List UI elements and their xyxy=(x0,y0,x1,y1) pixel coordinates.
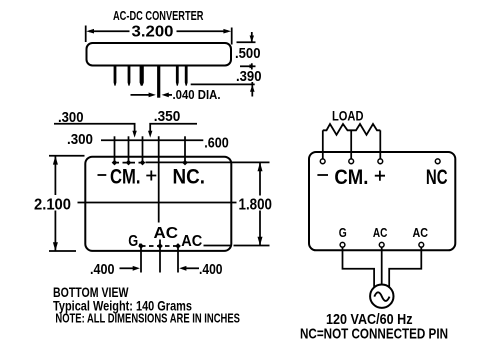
sine wave inside source xyxy=(374,292,389,301)
svg-text:NC.: NC. xyxy=(173,166,206,189)
dimension line 3.200 right segment with right arrow xyxy=(177,30,229,32)
svg-text:AC: AC xyxy=(413,226,429,240)
svg-text:.600: .600 xyxy=(204,135,229,152)
extension line at package bottom with small right arrow xyxy=(240,65,256,67)
pin stubs below package xyxy=(140,247,142,273)
wire right terminal xyxy=(379,130,381,159)
AC source circle xyxy=(370,285,393,308)
2.100 extension lines xyxy=(49,155,85,157)
.390 up arrow with shaft below xyxy=(251,82,253,97)
mid horizontal line xyxy=(78,202,237,204)
.040 DIA callout: right arrow xyxy=(167,94,172,96)
svg-text:1.800: 1.800 xyxy=(239,197,273,214)
pin circle AC right xyxy=(419,242,424,247)
pad dots top row xyxy=(112,160,118,166)
svg-text:3.200: 3.200 xyxy=(132,24,174,41)
svg-text:.300: .300 xyxy=(67,132,93,148)
svg-text:CM.: CM. xyxy=(334,166,368,189)
wire from middle AC straight down to source xyxy=(381,247,383,284)
dashed line between bottom pads xyxy=(141,245,178,247)
leader line for .300 with down arrow xyxy=(54,124,136,132)
label plus xyxy=(146,171,156,181)
2.100 dim line lower segment with down arrow xyxy=(54,211,56,251)
.500 dimension: top extension line xyxy=(237,41,256,43)
schematic package outline xyxy=(309,152,455,250)
svg-text:LOAD: LOAD xyxy=(332,108,364,124)
pin 4 (side view, middle AC pin, long - measured by .040 DIA) xyxy=(157,66,160,98)
svg-text:AC: AC xyxy=(373,226,388,240)
label plus xyxy=(375,171,385,181)
pin circle plus xyxy=(378,159,383,164)
pin 2 (side view) xyxy=(128,66,131,86)
.400 right arrow pointing left xyxy=(186,267,200,269)
svg-text:CM.: CM. xyxy=(110,166,141,189)
extension line left (package left edge) xyxy=(85,26,87,43)
.040 DIA callout: left arrow xyxy=(131,94,150,96)
extension line at pin tips xyxy=(191,83,255,85)
1.800 dim line lower segment with down arrow xyxy=(259,211,261,246)
pin 1 (side view) xyxy=(114,66,117,86)
2.100 dim line upper segment with up arrow xyxy=(54,156,56,195)
wire from G down right down to source xyxy=(343,247,375,287)
svg-text:.400: .400 xyxy=(199,261,223,278)
1.800 bottom extension line xyxy=(234,245,270,247)
svg-text:AC: AC xyxy=(154,225,179,242)
svg-text:NC=NOT CONNECTED PIN: NC=NOT CONNECTED PIN xyxy=(300,326,448,343)
pin circle NC xyxy=(435,159,440,164)
svg-text:G: G xyxy=(339,226,347,240)
pin 5 (side view) xyxy=(176,66,179,86)
wire from right AC down left down to source xyxy=(389,247,421,288)
svg-text:.350: .350 xyxy=(154,109,181,125)
svg-text:.040 DIA.: .040 DIA. xyxy=(173,87,221,102)
dimension line 3.200 left segment with left arrow xyxy=(89,30,130,32)
center line xyxy=(158,136,160,222)
1.800 dim line upper segment with up arrow xyxy=(259,163,261,196)
pin 6 (side view) xyxy=(185,66,188,86)
pin circle G xyxy=(340,242,345,247)
pin circle AC middle xyxy=(379,242,384,247)
pin spacing dimension line xyxy=(101,139,203,141)
svg-text:2.100: 2.100 xyxy=(34,197,71,214)
pad dots bottom row xyxy=(138,243,144,249)
resistor load zigzag (two resistors) xyxy=(323,124,381,135)
label minus xyxy=(317,174,328,176)
solid line from + pad to 1.800 dimension xyxy=(146,161,270,163)
leader line for .350 with down arrow xyxy=(149,124,197,132)
pin 3 (side view, merged pair, wide) xyxy=(140,66,144,86)
pin circle minus xyxy=(320,159,325,164)
pin stub ticks down to pads xyxy=(114,136,116,162)
pin circle CM xyxy=(349,159,354,164)
bottom view package outline xyxy=(85,157,231,251)
svg-text:.400: .400 xyxy=(90,261,115,278)
.400 left arrow pointing right xyxy=(120,267,135,269)
converter package outline (side view) xyxy=(87,43,232,66)
extension line right (package right edge) xyxy=(231,28,233,45)
dashed line between pads xyxy=(115,162,143,164)
wire left terminal xyxy=(322,130,324,159)
svg-text:NC: NC xyxy=(426,166,448,189)
svg-text:.390: .390 xyxy=(236,68,262,85)
line from AC to package right edge xyxy=(204,245,232,247)
wire middle terminal xyxy=(350,130,352,159)
svg-text:AC: AC xyxy=(181,233,202,250)
label minus xyxy=(98,174,107,176)
svg-text:NOTE: ALL DIMENSIONS ARE IN IN: NOTE: ALL DIMENSIONS ARE IN INCHES xyxy=(55,311,240,326)
svg-text:.500: .500 xyxy=(235,45,261,62)
svg-text:AC-DC CONVERTER: AC-DC CONVERTER xyxy=(113,9,204,23)
.500 dimension line with down arrow xyxy=(251,32,253,42)
